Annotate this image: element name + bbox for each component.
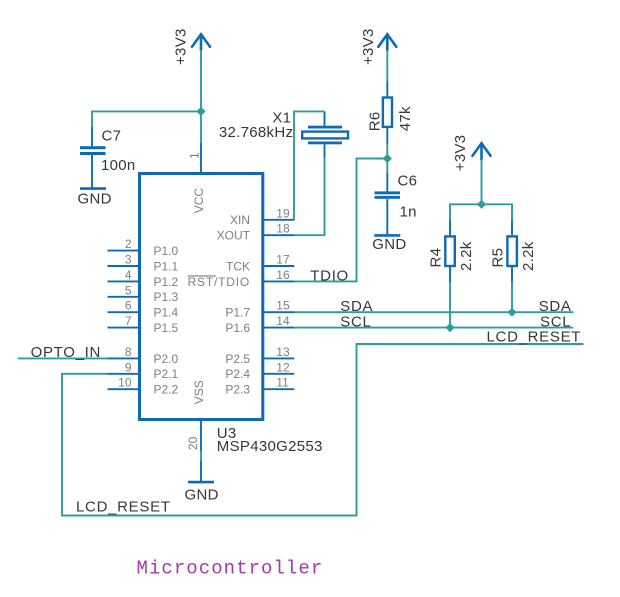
node junction SDA	[507, 308, 516, 317]
svg-text:1: 1	[188, 152, 202, 159]
power +3V3 P2	[360, 28, 396, 65]
svg-text:GND: GND	[372, 236, 406, 253]
svg-text:2: 2	[125, 237, 132, 251]
pin 17 TCK	[226, 253, 294, 274]
pin 13 P2.5	[225, 345, 294, 366]
svg-text:P1.6: P1.6	[225, 321, 250, 335]
wire SCL net	[294, 327, 573, 329]
svg-text:5: 5	[125, 283, 132, 297]
svg-text:TCK: TCK	[226, 259, 250, 273]
svg-text:P2.4: P2.4	[225, 367, 250, 381]
svg-text:VCC: VCC	[192, 188, 206, 214]
svg-text:47k: 47k	[397, 106, 414, 131]
svg-text:LCD_RESET: LCD_RESET	[76, 499, 171, 516]
pin 2 P1.0	[108, 237, 179, 258]
svg-text:+3V3: +3V3	[173, 28, 190, 65]
pin 6 P1.4	[108, 299, 179, 320]
pin 16 RST/TDIO	[188, 268, 295, 289]
svg-text:20: 20	[186, 436, 200, 450]
node junction pin1	[196, 107, 205, 116]
wire crystal bottom to pin18	[294, 158, 324, 236]
svg-text:P2.0: P2.0	[154, 352, 179, 366]
svg-text:32.768kHz: 32.768kHz	[219, 124, 293, 141]
resistor R6	[367, 82, 415, 144]
svg-text:18: 18	[276, 222, 290, 236]
pin 9 P2.1	[108, 360, 179, 381]
svg-text:6: 6	[125, 299, 132, 313]
svg-text:4: 4	[125, 268, 132, 282]
svg-text:P1.1: P1.1	[154, 259, 179, 273]
ground GND U3	[185, 461, 219, 504]
wire R4 to SCL	[449, 282, 451, 328]
svg-text:P2.5: P2.5	[225, 352, 250, 366]
svg-text:R6: R6	[367, 112, 384, 132]
wire R5 to SDA	[511, 282, 513, 312]
wire R6 to C6	[386, 144, 388, 173]
svg-text:100n: 100n	[101, 157, 136, 174]
crystal X1	[219, 110, 348, 158]
pin 12 P2.4	[225, 360, 294, 381]
pin 4 P1.2	[108, 268, 179, 289]
wire OPTO_IN net	[18, 357, 108, 359]
pin 20 VSS	[186, 380, 206, 461]
svg-text:9: 9	[125, 360, 132, 374]
pin 15 P1.7	[225, 299, 294, 320]
svg-text:GND: GND	[78, 191, 112, 208]
capacitor C7	[80, 127, 136, 188]
svg-text:16: 16	[276, 268, 290, 282]
svg-text:3: 3	[125, 253, 132, 267]
svg-text:P1.2: P1.2	[154, 275, 179, 289]
svg-text:P1.4: P1.4	[154, 306, 179, 320]
svg-text:11: 11	[276, 376, 289, 390]
resistor R5	[489, 220, 537, 282]
resistor R4	[428, 220, 476, 282]
pin 14 P1.6	[225, 314, 294, 335]
svg-text:13: 13	[276, 345, 290, 359]
pin 11 P2.3	[225, 376, 294, 397]
wire SDA net	[294, 311, 573, 313]
svg-text:SCL: SCL	[340, 314, 371, 331]
svg-text:GND: GND	[185, 487, 219, 504]
node junction TDIO	[383, 154, 392, 163]
svg-text:C7: C7	[102, 127, 122, 144]
svg-text:LCD_RESET: LCD_RESET	[487, 329, 582, 346]
svg-text:C6: C6	[398, 173, 418, 190]
svg-text:14: 14	[276, 314, 290, 328]
svg-text:TDIO: TDIO	[310, 268, 349, 285]
capacitor C6	[375, 173, 418, 235]
svg-text:XIN: XIN	[230, 213, 250, 227]
svg-text:P1.5: P1.5	[154, 321, 179, 335]
wire crystal top to pin19	[294, 111, 325, 219]
wire P1 drop	[200, 50, 202, 143]
ground GND C6	[372, 235, 406, 253]
svg-text:15: 15	[276, 299, 290, 313]
pin 19 XIN	[230, 206, 294, 227]
power +3V3 P1	[173, 28, 211, 65]
svg-text:VSS: VSS	[192, 380, 206, 404]
pin 1 VCC	[188, 143, 206, 214]
svg-text:P2.3: P2.3	[225, 383, 250, 397]
wire TDIO net	[295, 159, 388, 282]
op-amp U3 body	[140, 174, 263, 420]
svg-text:P1.3: P1.3	[154, 290, 179, 304]
svg-text:OPTO_IN: OPTO_IN	[31, 344, 101, 361]
wire P3 drop	[481, 160, 483, 205]
wire to C7	[92, 111, 201, 127]
pin 18 XOUT	[217, 222, 295, 243]
pin 7 P1.5	[108, 314, 179, 335]
svg-text:7: 7	[125, 314, 132, 328]
svg-text:P2.1: P2.1	[154, 367, 179, 381]
svg-text:2.2k: 2.2k	[520, 241, 537, 271]
pin 5 P1.3	[108, 283, 179, 304]
wire P2 to R6	[386, 50, 388, 82]
svg-text:17: 17	[276, 253, 290, 267]
svg-text:8: 8	[125, 345, 132, 359]
svg-text:R5: R5	[489, 248, 506, 268]
pin 8 P2.0	[108, 345, 179, 366]
svg-text:R4: R4	[428, 248, 445, 268]
svg-text:XOUT: XOUT	[217, 229, 251, 243]
svg-text:+3V3: +3V3	[452, 135, 469, 172]
svg-text:10: 10	[118, 376, 132, 390]
power +3V3 P3	[452, 135, 491, 172]
wire R4 R5 branch	[450, 204, 512, 220]
svg-text:1n: 1n	[400, 203, 417, 220]
pin 3 P1.1	[108, 253, 179, 274]
ground GND C7	[78, 189, 112, 208]
svg-text:Microcontroller: Microcontroller	[137, 558, 324, 580]
node junction P3	[477, 200, 486, 209]
svg-text:P1.0: P1.0	[154, 244, 179, 258]
svg-text:+3V3: +3V3	[360, 28, 377, 65]
svg-text:RST/TDIO: RST/TDIO	[188, 275, 250, 289]
svg-text:P1.7: P1.7	[225, 306, 250, 320]
svg-text:2.2k: 2.2k	[458, 241, 475, 271]
svg-text:12: 12	[276, 360, 290, 374]
svg-text:19: 19	[276, 206, 290, 220]
svg-text:P2.2: P2.2	[154, 383, 179, 397]
node junction SCL	[445, 323, 454, 332]
svg-text:MSP430G2553: MSP430G2553	[217, 438, 323, 455]
pin 10 P2.2	[108, 376, 179, 397]
wire LCD_RESET net	[62, 344, 584, 516]
